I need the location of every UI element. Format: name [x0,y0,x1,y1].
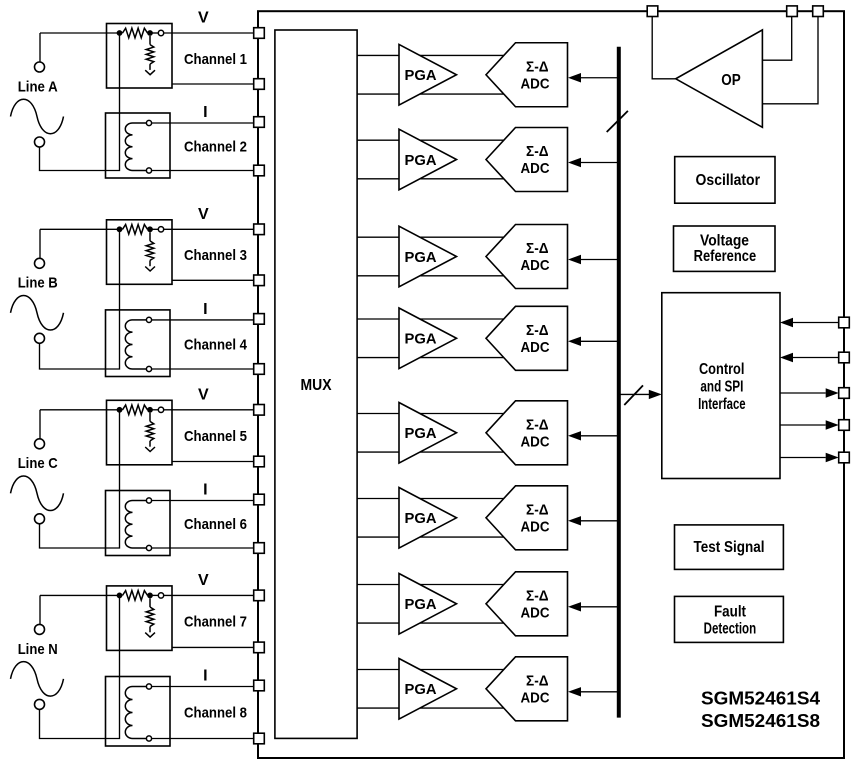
voltage divider sensor box (Line B) [107,220,173,284]
svg-text:I: I [203,301,207,318]
sigma-delta ADC U3 [486,225,568,289]
svg-text:Σ-Δ: Σ-Δ [526,416,549,433]
sigma-delta ADC U6 [486,486,568,550]
wire Line A V output to Channel 1 pin [40,32,123,34]
current transformer box (Channel 6) [106,491,171,556]
svg-text:Oscillator: Oscillator [696,172,761,189]
arrow bus to ADC row 4 [568,337,619,346]
AC source sine (Line N) [11,662,64,697]
wire CT secondary bottom to Channel 2 second pin [152,170,259,172]
terminal: Line N top circle [35,624,45,634]
sigma-delta ADC U8 [486,657,568,721]
wire MUX to ADC row 5 (upper) [357,413,508,415]
wire SPI input 1 to Control [780,318,839,327]
svg-text:PGA: PGA [405,331,437,348]
wire Control to SPI output 5 [780,453,839,462]
sigma-delta ADC U1 [486,43,568,107]
wire CT primary / line B return [40,229,120,369]
wire MUX to ADC row 3 (upper) [357,236,508,238]
inductor L2 (CT secondary coil) [125,320,132,369]
wire CT primary / line N return [40,595,120,738]
sigma-delta ADC U4 [486,306,568,370]
node: divider tap junction dots [117,407,123,413]
Control and SPI Interface block [662,293,780,479]
pin: Channel 5 V input [254,405,265,416]
data bus (vertical) [617,47,621,718]
wire MUX to ADC row 8 (upper) [357,669,508,671]
terminal: CT secondary top circle [146,684,151,689]
wire Line N top terminal to divider [39,595,41,624]
terminal: Line C bottom circle [35,514,45,524]
op-amp PGA5 [399,403,457,464]
wire CT secondary bottom to Channel 4 second pin [152,368,259,370]
inductor L1 (CT secondary coil) [125,123,132,171]
wire Line C V output to Channel 5 pin [40,409,123,411]
svg-text:Channel 8: Channel 8 [184,705,247,721]
wire Channel 7 second lead to pin [172,646,259,648]
wire SPI input 2 to Control [780,353,839,362]
svg-text:Channel 5: Channel 5 [184,429,247,445]
ground arrow (divider) [145,633,155,638]
pin: Channel 7 V return [254,642,265,653]
wire MUX to ADC row 7 (upper) [357,584,508,586]
svg-text:Σ-Δ: Σ-Δ [526,58,549,75]
op-amp PGA3 [399,226,457,287]
wire Line C top terminal to divider [39,410,41,439]
pin: Channel 1 V return [254,79,265,90]
pin: SPI signal 4 (right edge) [839,420,850,431]
sigma-delta ADC U5 [486,401,568,465]
current transformer box (Channel 8) [106,677,171,747]
node: divider tap junction dots [117,226,123,232]
svg-text:Line N: Line N [18,642,58,658]
svg-text:Σ-Δ: Σ-Δ [526,240,549,257]
svg-text:PGA: PGA [405,596,437,613]
wire Line N V output to Channel 7 pin [40,594,123,596]
terminal: Line N bottom circle [35,699,45,709]
svg-text:ADC: ADC [521,257,550,274]
svg-text:I: I [203,668,207,685]
svg-text:Control: Control [699,361,745,378]
node: divider tap junction dots [117,593,123,599]
pin: Channel 3 V return [254,275,265,286]
inductor L4 (CT secondary coil) [125,687,132,739]
resistor R6 (divider shunt) [149,413,151,422]
svg-text:SGM52461S4: SGM52461S4 [701,688,821,709]
voltage divider sensor box (Line C) [107,400,173,465]
op-amp PGA6 [399,488,457,549]
wire Line B top terminal to divider [39,229,41,258]
voltage divider sensor box (Line N) [107,586,173,651]
wire OP output to top pin 1 [652,17,676,79]
svg-text:PGA: PGA [405,510,437,527]
terminal: CT secondary top circle [146,120,151,125]
chip boundary (SGM52461) [258,11,844,758]
wire CT secondary to Channel 4 pin [152,319,259,321]
svg-text:Σ-Δ: Σ-Δ [526,501,549,518]
pin: Channel 3 V input [254,224,265,235]
pin: SPI signal 5 (right edge) [839,452,850,463]
wire CT primary / line A return [40,33,120,171]
pin: SPI signal 3 (right edge) [839,388,850,399]
pin: OP output (top edge) [647,6,658,17]
svg-text:OP: OP [721,72,741,89]
op-amp PGA2 [399,129,457,190]
wire MUX to ADC row 3 (lower) [357,275,508,277]
pin: Channel 4 I input [254,314,265,325]
pin: SPI signal 1 (right edge) [839,317,850,328]
op-amp PGA1 [399,44,457,105]
pin: Channel 8 I return [254,733,265,744]
inductor L3 (CT secondary coil) [125,501,132,549]
terminal: divider output circle [158,30,163,35]
voltage divider sensor box (Line A) [107,24,173,89]
svg-text:SGM52461S8: SGM52461S8 [701,710,820,731]
Oscillator block [675,157,775,204]
svg-text:Channel 6: Channel 6 [184,517,247,533]
wire Channel 1 second lead to pin [172,83,259,85]
wire MUX to ADC row 4 (lower) [357,357,508,359]
resistor R4 (divider shunt) [149,232,151,241]
terminal: CT secondary bottom circle [146,168,151,173]
svg-text:Σ-Δ: Σ-Δ [526,143,549,160]
wire MUX to ADC row 7 (lower) [357,622,508,624]
resistor R8 (divider shunt) [149,598,151,607]
ground arrow (divider) [145,70,155,75]
svg-text:ADC: ADC [521,160,550,177]
svg-text:Line A: Line A [18,79,58,95]
svg-text:Interface: Interface [698,396,746,413]
svg-text:ADC: ADC [521,604,550,621]
sigma-delta ADC U2 [486,128,568,192]
wire MUX to ADC row 5 (lower) [357,451,508,453]
svg-text:Channel 1: Channel 1 [184,52,247,68]
svg-text:I: I [203,482,207,499]
pin: SPI signal 2 (right edge) [839,352,850,363]
wire MUX to ADC row 4 (upper) [357,318,508,320]
wire Control to SPI output 4 [780,420,839,429]
terminal: Line B bottom circle [35,333,45,343]
svg-text:Σ-Δ: Σ-Δ [526,672,549,689]
svg-text:Σ-Δ: Σ-Δ [526,587,549,604]
svg-text:PGA: PGA [405,67,437,84]
wire Control to SPI output 3 [780,388,839,397]
op-amp PGA8 [399,659,457,720]
ground arrow (divider) [145,267,155,272]
svg-text:PGA: PGA [405,681,437,698]
svg-text:ADC: ADC [521,518,550,535]
svg-text:I: I [203,104,207,121]
svg-text:V: V [198,386,209,403]
terminal: CT secondary bottom circle [146,545,151,550]
current transformer box (Channel 4) [106,310,171,377]
MUX [275,30,357,738]
svg-text:Voltage: Voltage [700,233,749,250]
terminal: Line A bottom circle [35,137,45,147]
AC source sine (Line C) [11,476,64,511]
wire MUX to ADC row 8 (lower) [357,707,508,709]
wire bus to Control block [619,390,662,399]
wire CT secondary bottom to Channel 8 second pin [152,738,259,740]
resistor R3 (divider series) [123,225,148,235]
svg-text:V: V [198,206,209,223]
pin: Channel 1 V input [254,28,265,39]
wire CT secondary bottom to Channel 6 second pin [152,547,259,549]
wire MUX to ADC row 2 (lower) [357,178,508,180]
arrow bus to ADC row 2 [568,158,619,167]
svg-text:PGA: PGA [405,249,437,266]
wire CT secondary to Channel 6 pin [152,500,259,502]
terminal: divider output circle [158,593,163,598]
Fault Detection block [675,596,784,642]
arrow bus to ADC row 7 [568,602,619,611]
AC source sine (Line B) [11,296,64,331]
wire OP input upper to top pin 2 [762,17,791,61]
svg-text:ADC: ADC [521,433,550,450]
arrow bus to ADC row 5 [568,431,619,440]
node: divider tap junction dots [117,30,123,36]
svg-text:Channel 7: Channel 7 [184,615,247,631]
terminal: divider output circle [158,407,163,412]
svg-text:Channel 3: Channel 3 [184,248,247,264]
ground arrow (divider) [145,447,155,452]
terminal: CT secondary top circle [146,498,151,503]
svg-text:Line B: Line B [18,276,58,292]
svg-text:V: V [198,10,209,27]
resistor R1 (divider series) [123,28,148,38]
wire Line B V output to Channel 3 pin [40,228,123,230]
op-amp PGA7 [399,574,457,635]
resistor R7 (divider series) [123,591,148,601]
svg-text:ADC: ADC [521,75,550,92]
wire CT secondary to Channel 2 pin [152,122,259,124]
terminal: CT secondary top circle [146,317,151,322]
svg-text:ADC: ADC [521,689,550,706]
svg-text:Channel 2: Channel 2 [184,140,247,156]
svg-text:PGA: PGA [405,152,437,169]
arrow bus to ADC row 6 [568,516,619,525]
pin: Channel 4 I return [254,364,265,375]
svg-text:and SPI: and SPI [700,379,743,396]
control wire width slash [624,385,643,405]
wire OP input lower to top pin 3 [762,17,818,104]
wire CT primary / line C return [40,410,120,548]
bus width slash [607,111,628,132]
svg-text:PGA: PGA [405,425,437,442]
wire MUX to ADC row 6 (upper) [357,498,508,500]
pin: Channel 5 V return [254,456,265,467]
op-amp PGA4 [399,308,457,369]
svg-text:Detection: Detection [704,620,757,637]
svg-text:Fault: Fault [714,604,747,621]
wire MUX to ADC row 2 (upper) [357,139,508,141]
wire Channel 5 second lead to pin [172,461,259,463]
pin: OP input lower (top edge) [813,6,824,17]
svg-text:V: V [198,572,209,589]
svg-text:Σ-Δ: Σ-Δ [526,322,549,339]
pin: Channel 8 I input [254,680,265,691]
svg-text:Reference: Reference [694,248,757,265]
terminal: CT secondary bottom circle [146,366,151,371]
terminal: Line B top circle [35,258,45,268]
pin: Channel 2 I input [254,117,265,128]
AC source sine (Line A) [11,99,64,134]
terminal: divider output circle [158,227,163,232]
terminal: CT secondary bottom circle [146,736,151,741]
arrow bus to ADC row 1 [568,73,619,82]
svg-text:ADC: ADC [521,339,550,356]
svg-text:MUX: MUX [301,377,333,394]
arrow bus to ADC row 8 [568,687,619,696]
wire MUX to ADC row 1 (upper) [357,54,508,56]
svg-text:Test Signal: Test Signal [694,539,765,556]
pin: OP input upper (top edge) [787,6,798,17]
resistor R5 (divider series) [123,405,148,415]
svg-text:Line C: Line C [18,456,58,472]
resistor R2 (divider shunt) [149,36,151,45]
pin: Channel 6 I input [254,494,265,505]
svg-text:Channel 4: Channel 4 [184,337,248,353]
wire CT secondary to Channel 8 pin [152,686,259,688]
pin: Channel 6 I return [254,543,265,554]
Test Signal block [675,525,784,570]
wire Channel 3 second lead to pin [172,279,259,281]
arrow bus to ADC row 3 [568,255,619,264]
wire MUX to ADC row 6 (lower) [357,536,508,538]
terminal: Line A top circle [35,62,45,72]
wire Line A top terminal to divider [39,33,41,62]
wire MUX to ADC row 1 (lower) [357,93,508,95]
Voltage Reference block [674,226,776,271]
pin: Channel 7 V input [254,590,265,601]
terminal: Line C top circle [35,439,45,449]
pin: Channel 2 I return [254,165,265,176]
current transformer box (Channel 2) [106,113,171,178]
op-amp OP [676,30,763,127]
sigma-delta ADC U7 [486,572,568,636]
